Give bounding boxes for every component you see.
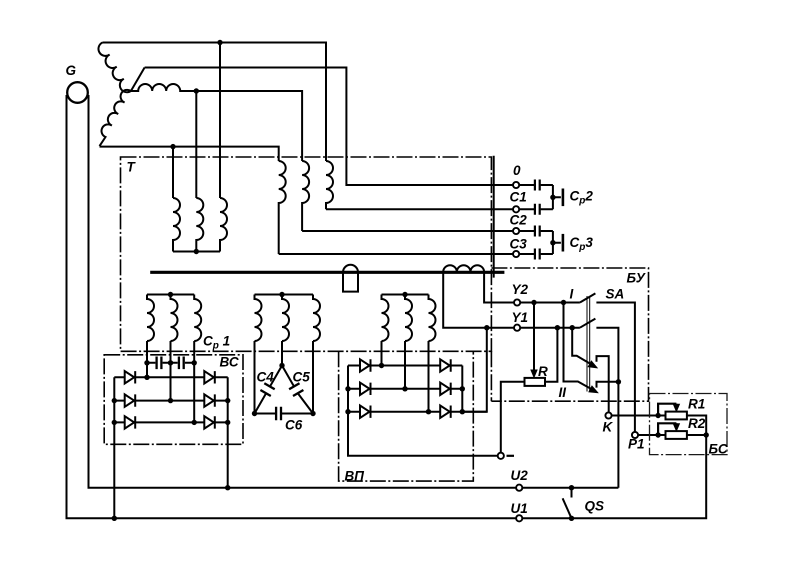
junction U1 / QS pivot (569, 516, 574, 521)
junction delta bottom left (252, 411, 257, 416)
wire C2 line (302, 230, 553, 232)
junction Cp3 (550, 240, 555, 245)
junction VP left bus row2 (345, 386, 350, 391)
arrowhead of R arrow (531, 370, 537, 377)
svg-text:C6: C6 (285, 418, 303, 433)
svg-text:C5: C5 (293, 370, 311, 385)
capacitor on C1 line (535, 204, 540, 215)
diode VS row1 left (125, 371, 136, 383)
transformer T primary coil 2 (196, 198, 203, 252)
winding VP coil 2 (405, 295, 412, 342)
generator stator winding phase A (coil on upper diagonal) (98, 43, 130, 93)
wire VS winding drop 1 to bridge row 1 (146, 341, 148, 377)
generator G leads and wire to U1 line and riser to R2 right (67, 95, 707, 518)
wire VP bridge right bus (461, 366, 463, 412)
svg-text:C4: C4 (257, 370, 275, 385)
resistor R1 wiper arrow (658, 404, 676, 416)
diode VS row3 right (204, 416, 215, 428)
junction Cp1 left (144, 360, 149, 365)
svg-text:U2: U2 (511, 468, 529, 483)
wire VP bridge row 1 (348, 365, 462, 367)
wire pole-2 fixed contact down to U2 line (596, 328, 618, 488)
diode VS row2 right (204, 394, 215, 406)
wire P1 to R2 (635, 434, 666, 436)
junction VP row3 drop (426, 409, 431, 414)
wire phase line A (top) (103, 43, 327, 162)
capacitor C5 plates (289, 383, 303, 396)
generator G circle (67, 82, 88, 103)
capacitor Cp3 plate (562, 234, 565, 252)
junction phase B / primary drop (194, 88, 199, 93)
junction VS plus / U2 line (225, 485, 230, 490)
wire Y1 from bus coil left end (443, 272, 580, 327)
junction VS minus / U1 line (112, 516, 117, 521)
junction delta bottom right (310, 411, 315, 416)
junction VP row1 drop (379, 363, 384, 368)
block BU border (491, 268, 648, 401)
terminal minus (498, 453, 504, 459)
wire drop phase C to T primary 1 (172, 147, 174, 198)
terminal U1 (516, 515, 522, 521)
diode VP row1 right (440, 359, 451, 371)
capacitor on C3 line (535, 249, 540, 260)
diode VP row3 right (440, 406, 451, 418)
wire mid winding drop 1 (254, 341, 256, 414)
terminal U2 (516, 485, 522, 491)
transformer T secondary coil 2 (302, 161, 309, 231)
switch QS blade (563, 498, 572, 518)
wire VS winding drop 3 to bridge row 3 (193, 341, 195, 422)
svg-text:SA: SA (606, 287, 625, 302)
junction VP right bus row3 (460, 409, 465, 414)
wire gen right lead to U2 line (89, 95, 619, 488)
winding VS coil 1 (147, 295, 154, 342)
transformer T primary coil 1 (173, 198, 180, 252)
svg-text:II: II (559, 385, 567, 400)
terminal C3 (513, 251, 519, 257)
wire VS bridge left bus to U1 line (113, 377, 115, 518)
wire VS winding top link (147, 294, 194, 296)
block VP border (339, 351, 474, 481)
diode VP row3 left (360, 406, 371, 418)
diode VP row2 right (440, 383, 451, 395)
transformer T block border (121, 157, 492, 351)
junction R2 right / U1 riser (704, 432, 709, 437)
svg-text:0: 0 (513, 163, 521, 178)
wire phase line C (bottom) (100, 147, 279, 161)
transformer T secondary coil 1 (279, 161, 286, 254)
diode VS row2 left (125, 394, 136, 406)
svg-text:R2: R2 (688, 416, 706, 431)
arrowhead SA-II blade a (589, 362, 597, 368)
resistor R left wire to minus terminal (501, 382, 525, 453)
junction VS right bus row3 (225, 420, 230, 425)
junction VS winding top (168, 292, 173, 297)
generator stator winding phase B (horizontal coil) (131, 84, 183, 91)
wire VP bridge row 3 (348, 411, 487, 413)
thick exciter bus (150, 271, 504, 274)
junction R1 left (655, 413, 660, 418)
junction R2 left (655, 432, 660, 437)
winding mid coil 1 (255, 295, 262, 342)
resistor R2 wiper arrow (658, 423, 676, 435)
switch SA section I blade (580, 293, 596, 302)
wire VS bridge row 1 (114, 376, 227, 378)
svg-text:C3: C3 (510, 237, 528, 252)
diode VS row1 right (204, 371, 215, 383)
junction Cp1 mid (168, 360, 173, 365)
inductor coil on bus (443, 265, 484, 272)
capacitor Cp1 a (157, 357, 162, 370)
junction Y1 to VP (484, 325, 489, 330)
wire mid winding drop 3 (312, 341, 314, 414)
svg-text:U1: U1 (511, 501, 528, 516)
junction VP winding top (402, 292, 407, 297)
label minus sign (507, 455, 515, 457)
wire C3 line (279, 253, 553, 255)
wire delta right leg with C5 (282, 366, 313, 414)
wire VP winding drop 3 (428, 341, 430, 412)
wire VP winding drop 2 (404, 341, 406, 389)
terminal 0 (513, 182, 519, 188)
wire Y2 from bus coil right end to SA section I (484, 272, 580, 302)
svg-text:R: R (538, 364, 548, 379)
junction mid winding top (279, 292, 284, 297)
svg-text:Y1: Y1 (512, 310, 529, 325)
winding VP coil 1 (382, 295, 389, 342)
resistor R2 body (666, 431, 687, 439)
winding VS coil 3 (194, 295, 201, 342)
svg-text:БС: БС (709, 442, 728, 457)
winding VP coil 3 (429, 295, 436, 342)
capacitor Cp2 plate (562, 189, 565, 207)
junction Y2 / blade b drop (561, 300, 566, 305)
capacitor on 0 line (535, 180, 540, 191)
wire VS bridge row 2 (114, 400, 227, 402)
junction VS right bus row2 (225, 398, 230, 403)
junction U2 / QS stub (569, 485, 574, 490)
wire delta left leg with C4 (255, 366, 283, 414)
brush on bus (343, 265, 358, 292)
svg-text:ВП: ВП (345, 469, 365, 484)
winding mid coil 2 (282, 295, 289, 342)
wire VS winding drop 2 to bridge row 2 (170, 341, 172, 401)
wire mid winding top link (255, 294, 314, 296)
capacitor on C2 line (535, 226, 540, 237)
capacitor Cp1 b (179, 357, 184, 370)
generator neutral diagonal from star point (131, 68, 145, 92)
wire Y1 junction down to VP bridge row3 (462, 328, 487, 412)
junction Y1 / blade a drop (570, 325, 575, 330)
block VS border (104, 355, 243, 445)
svg-text:C1: C1 (510, 190, 527, 205)
svg-text:P1: P1 (628, 437, 645, 452)
winding VS coil 2 (171, 295, 178, 342)
junction Y2 / R arrow (531, 300, 536, 305)
junction VP right bus row2 (460, 386, 465, 391)
diode VP row2 left (360, 383, 371, 395)
generator stator winding phase C (coil on lower diagonal) (100, 90, 131, 146)
wire vertical at T right border to bus (493, 156, 495, 278)
arrowhead SA-II blade b (589, 387, 597, 393)
svg-text:R1: R1 (688, 397, 705, 412)
svg-text:C2: C2 (510, 213, 528, 228)
block BU left border extension (490, 351, 492, 401)
wire VP winding drop 1 (381, 341, 383, 366)
wire delta bottom leg with C6 (255, 413, 314, 415)
switch SA linkage bar (587, 296, 590, 392)
resistor R right wire to Y1 (545, 328, 557, 382)
junction VS left bus row3 (112, 420, 117, 425)
wire Cp1 capacitor row (147, 362, 194, 364)
wire SA-II contact 1 loop to K (597, 356, 609, 412)
junction T primary star (194, 249, 199, 254)
svg-text:QS: QS (585, 499, 605, 514)
block BS border (650, 394, 728, 455)
junction phase C / primary drop (170, 144, 175, 149)
wire K line to R1 (609, 415, 666, 417)
junction VS row1 mid (144, 375, 149, 380)
junction VP row2 drop (402, 386, 407, 391)
svg-text:G: G (66, 63, 77, 78)
wire drop phase B to T primary 2 (195, 91, 197, 198)
terminal C2 (513, 228, 519, 234)
diode VP row1 left (360, 359, 371, 371)
wire drop phase A to T primary 3 (219, 43, 221, 199)
junction VP left bus row3 (345, 409, 350, 414)
diode VS row3 left (125, 416, 136, 428)
junction VS row3 mid (192, 420, 197, 425)
junction Cp2 (550, 195, 555, 200)
transformer T secondary coil 3 (326, 161, 333, 209)
switch SA pole 2 blade (580, 319, 596, 328)
terminal Y2 (514, 299, 520, 305)
svg-text:Y2: Y2 (512, 282, 529, 297)
winding mid coil 3 (313, 295, 320, 342)
terminal P1 (632, 432, 638, 438)
terminal Y1 (514, 325, 520, 331)
terminal C1 (513, 206, 519, 212)
wire T primary star link (173, 251, 220, 253)
capacitor C6 plates (276, 407, 281, 421)
wire neutral to terminal 0 (145, 68, 553, 186)
wire Cp3 link between C2 and C3 lines (553, 231, 561, 254)
resistor R1 body (666, 412, 687, 420)
wire mid winding drop 2 (281, 341, 283, 366)
junction Cp1 right (192, 360, 197, 365)
capacitor C4 plates (260, 383, 274, 396)
junction Y1 / R right (555, 325, 560, 330)
transformer T primary coil 3 (220, 198, 227, 252)
wire SA-II blade b from Y2 (564, 303, 593, 390)
wire VS bridge row 3 (114, 421, 227, 423)
arrowhead R1 wiper (673, 404, 679, 411)
terminal K (605, 412, 611, 418)
svg-text:I: I (570, 287, 574, 302)
wire R2 right (687, 434, 706, 436)
wire SA-II contact 2 to junction (597, 382, 619, 388)
svg-text:БУ: БУ (627, 271, 646, 286)
wire QS stub from U2 line (571, 488, 573, 498)
wire minus line from VP bridge (348, 366, 498, 456)
junction phase A / primary drop (217, 40, 222, 45)
junction SA-II fixed / U2 riser (616, 379, 621, 384)
wire Cp2 link between 0 and C1 lines (553, 185, 561, 209)
junction delta top (279, 363, 284, 368)
wire VS bridge right bus to U2 line (227, 377, 229, 487)
wire VP bridge row 2 (348, 388, 462, 390)
svg-text:K: K (603, 420, 614, 435)
resistor R body (525, 378, 546, 386)
wire phase line B (183, 91, 302, 161)
junction VS left bus row2 (112, 398, 117, 403)
wire VP winding top link (382, 294, 429, 296)
svg-text:ВС: ВС (220, 355, 239, 370)
junction VS row2 mid (168, 398, 173, 403)
wire R1 right to U1 riser (687, 416, 706, 436)
resistor R arrow from Y2 (533, 303, 535, 372)
wire SA-II blade a from Y1 (572, 328, 591, 365)
arrowhead R2 wiper (673, 424, 679, 431)
wire C1 line (326, 208, 553, 210)
wire SA-I fixed contact to P1 (596, 303, 635, 433)
